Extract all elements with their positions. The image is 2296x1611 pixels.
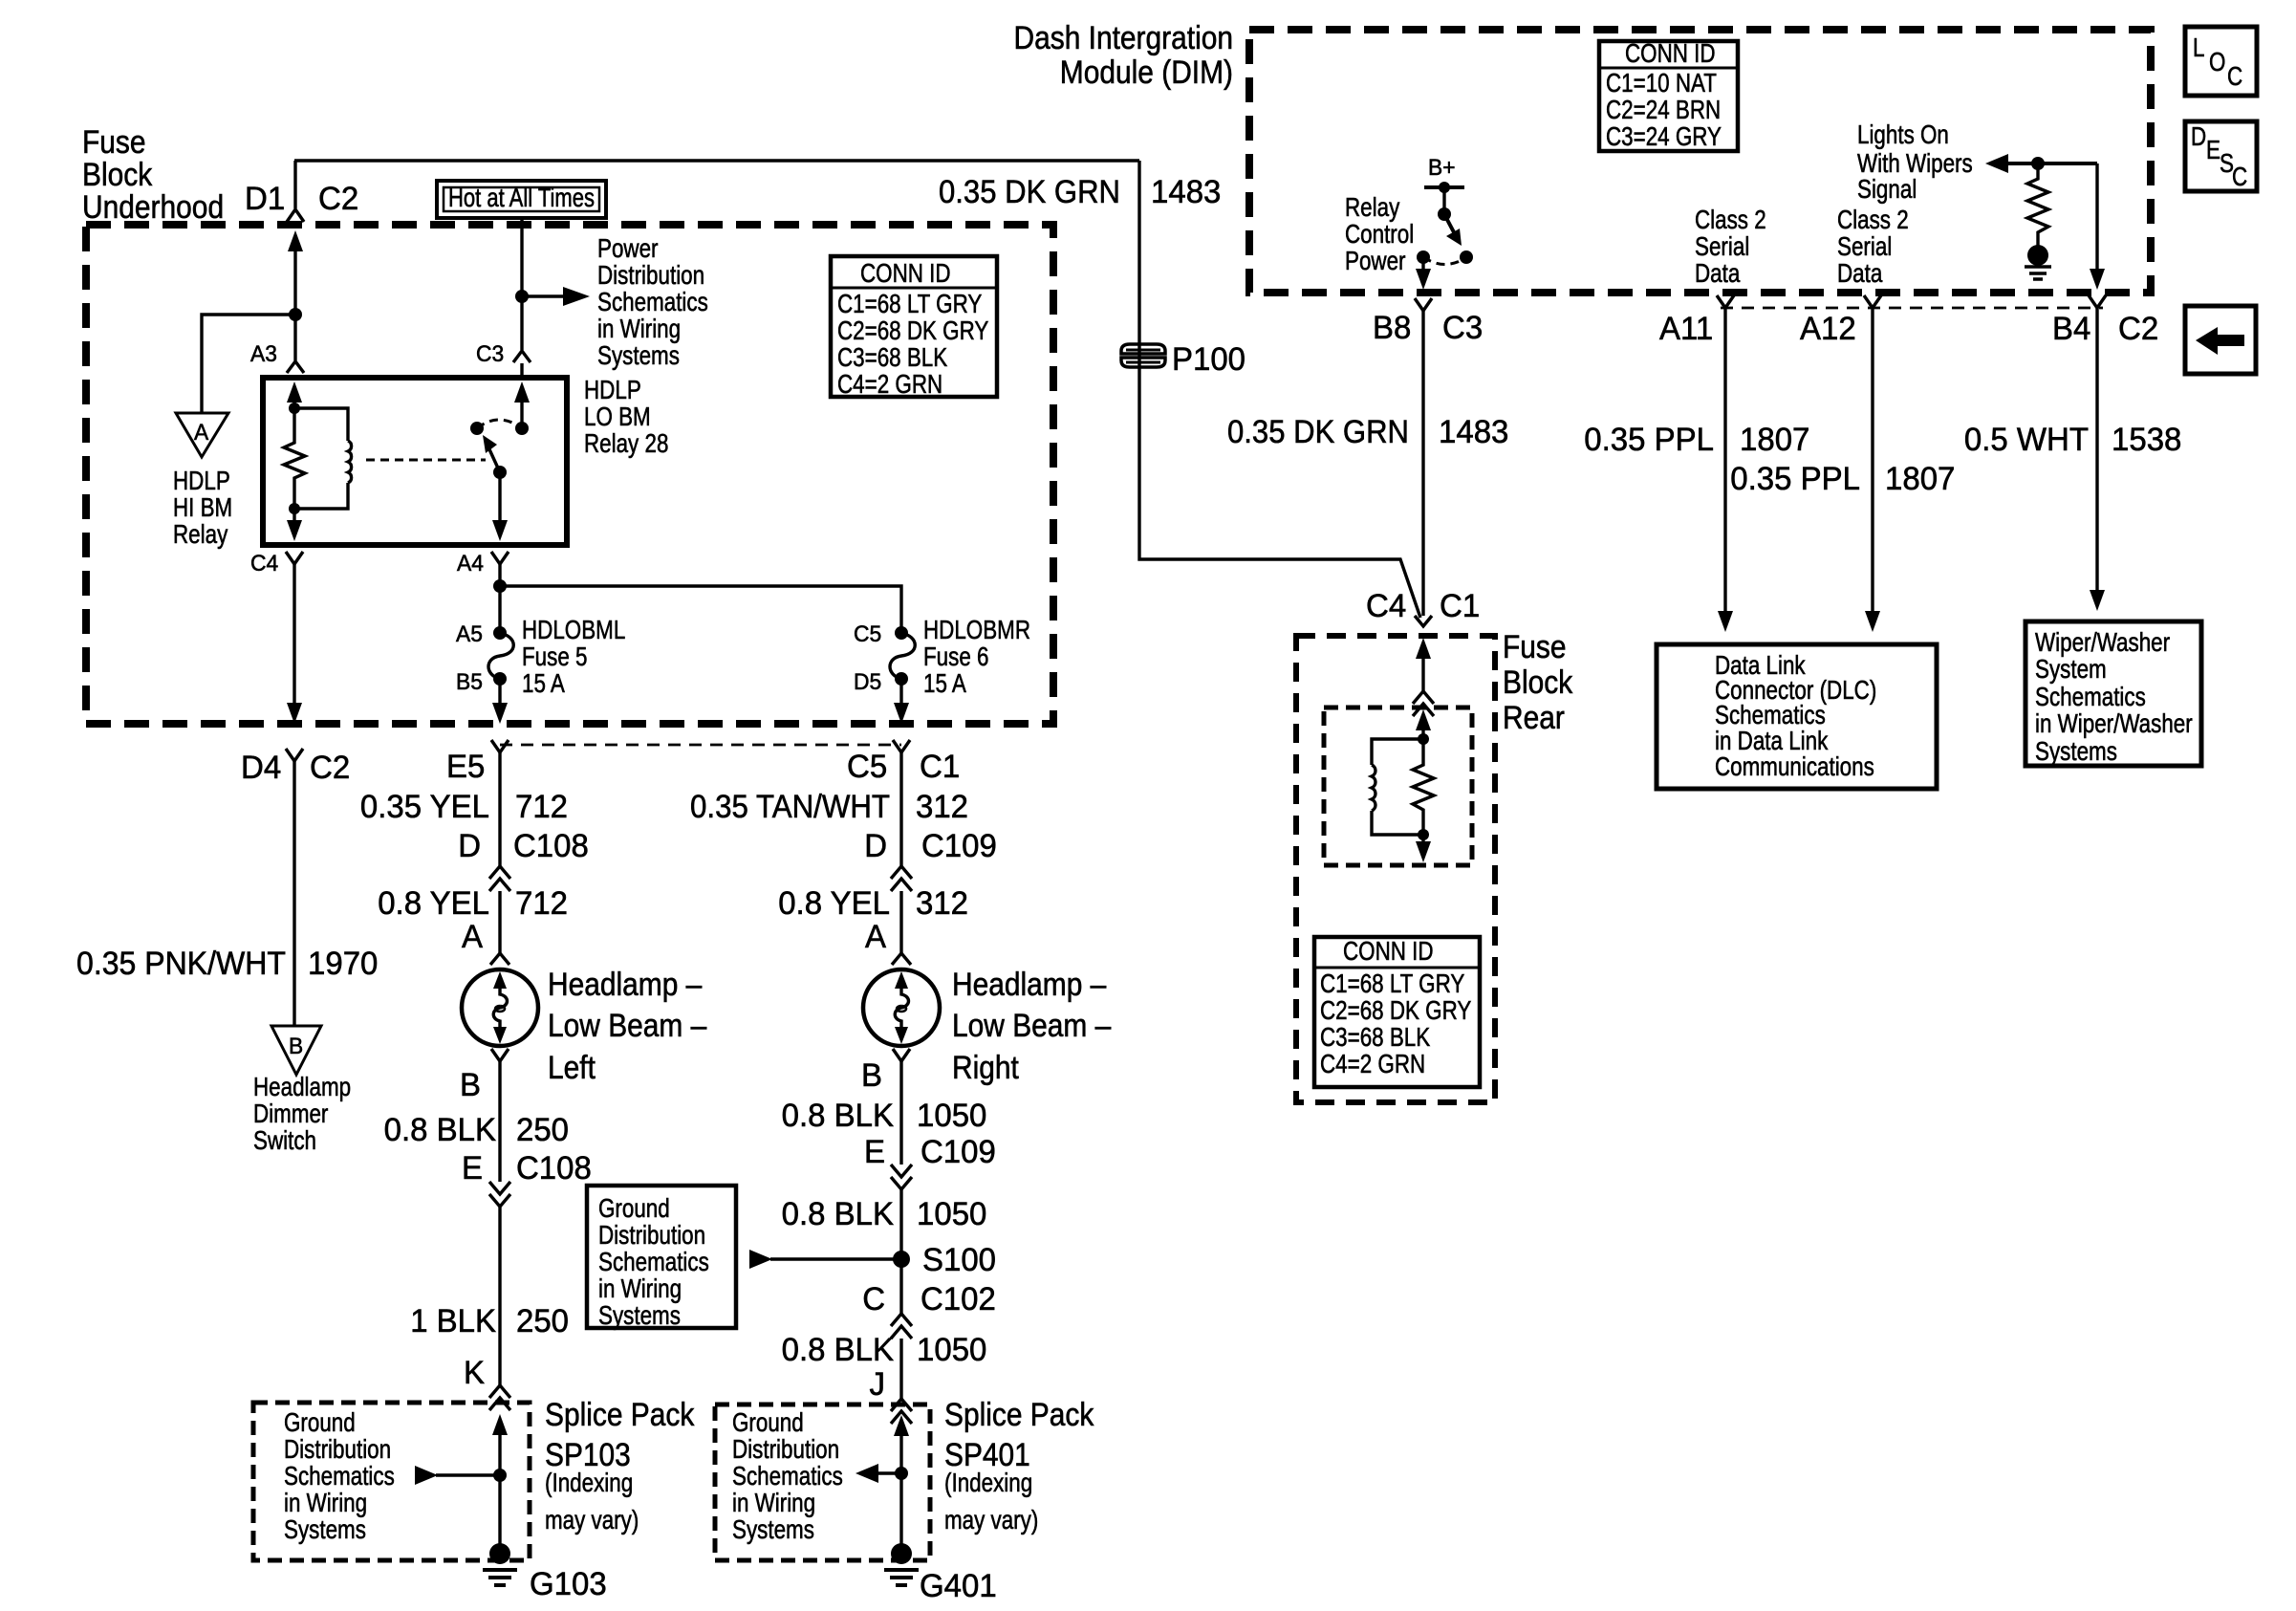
svg-text:712: 712 — [515, 789, 568, 825]
svg-text:A: A — [194, 420, 208, 446]
arrow to Power Distribution Schematics — [522, 287, 590, 306]
connector B (right headlamp) — [861, 1049, 910, 1094]
wire A3 to relay — [293, 315, 296, 360]
relay coil output arrow (C4 side) — [287, 509, 302, 541]
svg-text:C: C — [862, 1281, 885, 1317]
connector A11 — [1659, 295, 1734, 347]
svg-text:E5: E5 — [446, 749, 485, 785]
svg-text:D4: D4 — [241, 750, 281, 786]
data link connector reference box — [1657, 644, 1937, 789]
wire 0.35 DK GRN 1483 (DIM to fuse block rear) — [1227, 311, 1508, 616]
svg-text:Ground: Ground — [732, 1407, 804, 1437]
fuse 6 HDLOBMR — [854, 615, 1030, 698]
svg-text:C1=10 NAT: C1=10 NAT — [1606, 68, 1717, 98]
svg-text:A11: A11 — [1659, 311, 1713, 347]
CONN ID table (fuse block underhood) — [831, 256, 997, 399]
arrow into relay element — [1416, 709, 1431, 739]
svg-text:C102: C102 — [921, 1281, 996, 1317]
svg-text:A: A — [462, 919, 483, 955]
in-line connector D/C109 — [864, 828, 997, 891]
svg-text:1807: 1807 — [1885, 461, 1955, 497]
svg-text:System: System — [2035, 654, 2107, 684]
svg-text:15 A: 15 A — [923, 668, 966, 698]
svg-text:B8: B8 — [1373, 310, 1411, 346]
svg-text:Power: Power — [597, 233, 659, 263]
splice pack SP401 enclosure (dashed) — [715, 1404, 930, 1560]
svg-text:712: 712 — [515, 885, 568, 922]
svg-text:Serial: Serial — [1837, 231, 1892, 261]
wire 1 BLK 250 — [410, 1207, 569, 1385]
svg-text:HDLOBMR: HDLOBMR — [923, 615, 1030, 644]
wire J to G401 — [894, 1415, 909, 1554]
svg-text:Block: Block — [82, 157, 153, 193]
svg-text:Class 2: Class 2 — [1837, 205, 1909, 234]
ground distribution note in SP401 — [732, 1407, 843, 1544]
in-line connector (fuse block rear) — [1413, 691, 1434, 716]
svg-text:1 BLK: 1 BLK — [410, 1303, 496, 1339]
Lights On With Wipers Signal note — [1857, 120, 1973, 204]
Power Distribution Schematics note — [597, 233, 708, 370]
wire to HDLP HI BM Relay reference — [202, 315, 295, 413]
splice pack SP103 labels — [545, 1397, 695, 1535]
relay switch output arrow (A4 side) — [492, 472, 508, 541]
wire D1 stub — [293, 161, 296, 208]
svg-text:D: D — [2191, 121, 2206, 151]
svg-text:in Wiring: in Wiring — [284, 1488, 367, 1517]
svg-text:Wiper/Washer: Wiper/Washer — [2035, 627, 2170, 657]
relay coil top node — [289, 403, 300, 414]
B+ supply — [1424, 155, 1464, 214]
svg-text:Relay: Relay — [1345, 192, 1399, 222]
svg-text:A3: A3 — [250, 341, 277, 367]
svg-text:CONN ID: CONN ID — [860, 258, 951, 288]
relay coil (inductor) — [294, 408, 352, 509]
svg-text:Systems: Systems — [597, 340, 680, 370]
relay element resistor — [1413, 739, 1434, 835]
relay element enclosure (dashed, fuse block rear) — [1324, 708, 1472, 865]
svg-text:Distribution: Distribution — [598, 1220, 705, 1250]
svg-text:Underhood: Underhood — [82, 189, 224, 226]
svg-text:C2: C2 — [2118, 311, 2158, 347]
svg-text:0.8 YEL: 0.8 YEL — [378, 885, 489, 922]
node A3 junction — [289, 308, 302, 321]
LOC legend box — [2185, 27, 2257, 96]
pull resistor (wiper signal) — [2027, 163, 2048, 247]
relay actuation dashed link — [366, 459, 486, 462]
svg-text:Low Beam –: Low Beam – — [952, 1008, 1111, 1044]
relay element top node — [1418, 733, 1429, 745]
svg-text:C4=2 GRN: C4=2 GRN — [837, 369, 942, 399]
arrow to Lights On With Wipers Signal — [1985, 154, 2097, 173]
svg-text:C3: C3 — [476, 341, 504, 367]
arrow out of SP401 wire — [856, 1464, 901, 1483]
connector C1 grouping line (thin dashed) — [500, 744, 901, 747]
arrow at fuse block bottom (fuse 5) — [492, 703, 508, 724]
svg-text:Distribution: Distribution — [732, 1434, 839, 1464]
connector B4/C2 — [2052, 295, 2158, 347]
wire 0.35 TAN/WHT 312 — [690, 752, 968, 866]
svg-text:Dimmer: Dimmer — [253, 1099, 328, 1128]
svg-text:Relay: Relay — [173, 519, 227, 549]
node SP103 tap — [493, 1469, 507, 1482]
svg-text:Schematics: Schematics — [597, 287, 708, 316]
svg-text:Data: Data — [1837, 258, 1883, 288]
Fuse Block Rear title — [1503, 629, 1573, 736]
svg-text:1538: 1538 — [2112, 422, 2181, 458]
svg-text:K: K — [464, 1355, 485, 1391]
relay resistor — [284, 408, 305, 509]
svg-text:Schematics: Schematics — [2035, 682, 2146, 711]
svg-text:A: A — [865, 919, 886, 955]
svg-text:G103: G103 — [530, 1566, 607, 1602]
svg-text:C1: C1 — [1440, 588, 1480, 624]
relay switch dashed throw arc — [477, 420, 522, 428]
svg-text:E: E — [2206, 135, 2220, 164]
wire 0.8 BLK 1050 (upper) — [782, 1061, 987, 1165]
svg-text:Schematics: Schematics — [598, 1247, 709, 1276]
svg-text:250: 250 — [516, 1112, 569, 1148]
svg-text:HDLP: HDLP — [173, 466, 230, 495]
svg-text:C108: C108 — [513, 828, 589, 864]
svg-text:Rear: Rear — [1503, 700, 1565, 736]
svg-text:C2=68 DK GRY: C2=68 DK GRY — [837, 316, 989, 345]
connector A4 (relay output) — [457, 551, 509, 577]
svg-text:0.5 WHT: 0.5 WHT — [1964, 422, 2089, 458]
arrow from ground distribution box to S100 — [749, 1250, 901, 1269]
svg-text:Hot at All Times: Hot at All Times — [448, 183, 595, 212]
svg-text:C4: C4 — [250, 551, 278, 577]
svg-text:Left: Left — [548, 1050, 596, 1086]
svg-text:G401: G401 — [920, 1568, 997, 1604]
in-line connector D/C108 — [458, 828, 589, 891]
fuse block underhood enclosure (dashed) — [86, 225, 1053, 724]
relay switch pin arrow (C3 side) — [514, 381, 530, 428]
svg-text:1050: 1050 — [917, 1196, 986, 1232]
svg-text:Dash Intergration: Dash Intergration — [1014, 20, 1234, 56]
arrow out of relay element — [1416, 835, 1431, 862]
svg-text:Systems: Systems — [732, 1514, 814, 1544]
Class 2 Serial Data note (A11) — [1695, 205, 1766, 288]
relay switch blade — [483, 435, 500, 472]
svg-text:D: D — [458, 828, 481, 864]
wire C3 into relay — [520, 363, 523, 378]
svg-text:C2=68 DK GRY: C2=68 DK GRY — [1320, 995, 1472, 1025]
svg-text:Systems: Systems — [2035, 736, 2117, 766]
svg-text:0.8 BLK: 0.8 BLK — [782, 1196, 895, 1232]
ground G401 — [884, 1543, 997, 1604]
connector J — [870, 1366, 913, 1424]
svg-text:B: B — [861, 1057, 882, 1094]
svg-text:CONN ID: CONN ID — [1343, 936, 1434, 966]
svg-text:1050: 1050 — [917, 1098, 986, 1134]
svg-text:C1=68 LT GRY: C1=68 LT GRY — [1320, 969, 1465, 998]
svg-text:Block: Block — [1503, 664, 1573, 701]
grommet P100 — [1121, 341, 1245, 378]
svg-text:may vary): may vary) — [545, 1505, 639, 1535]
svg-text:0.8 BLK: 0.8 BLK — [384, 1112, 497, 1148]
svg-text:in Wiring: in Wiring — [732, 1488, 815, 1517]
in-line connector E/C109 — [864, 1134, 996, 1189]
triangle reference A (HDLP HI BM Relay) — [173, 413, 232, 549]
relay coil bottom node — [289, 503, 300, 514]
wire K to G103 — [492, 1414, 508, 1554]
relay control switch in DIM — [1345, 192, 1473, 275]
svg-text:C4=2 GRN: C4=2 GRN — [1320, 1049, 1425, 1078]
in-line connector E/C108 — [462, 1150, 592, 1207]
svg-text:312: 312 — [916, 789, 968, 825]
connector C2 grouping line (thin dashed, DIM) — [1721, 307, 2103, 310]
relay element coil — [1372, 739, 1423, 835]
wire 0.35 DK GRN 1483 (top, via P100) — [939, 161, 1420, 618]
svg-text:in Wiring: in Wiring — [597, 314, 681, 343]
node SP401 tap — [895, 1467, 908, 1480]
svg-text:B+: B+ — [1428, 155, 1456, 181]
svg-text:D: D — [864, 828, 887, 864]
svg-text:Serial: Serial — [1695, 231, 1749, 261]
svg-text:(Indexing: (Indexing — [545, 1468, 633, 1497]
connector C5/C1 — [847, 740, 960, 785]
svg-text:C1=68 LT GRY: C1=68 LT GRY — [837, 289, 983, 318]
svg-text:C3=24 GRY: C3=24 GRY — [1606, 121, 1722, 151]
connector C3 — [476, 341, 531, 367]
node power distribution tap — [515, 290, 529, 303]
wire 0.35 PPL 1807 (A11) — [1584, 308, 1809, 632]
svg-text:C109: C109 — [921, 1134, 996, 1170]
Dash Integration Module enclosure (dashed) — [1249, 30, 2151, 293]
svg-text:S100: S100 — [922, 1242, 996, 1278]
arrow into fuse block at D1 — [288, 230, 303, 315]
svg-text:D1: D1 — [245, 181, 285, 217]
svg-text:P100: P100 — [1172, 341, 1245, 378]
fuse 5 HDLOBML — [456, 615, 625, 698]
svg-text:Low Beam –: Low Beam – — [548, 1008, 706, 1044]
headlamp low beam left bulb — [462, 967, 706, 1086]
CONN ID table (DIM) — [1599, 38, 1738, 151]
svg-text:Ground: Ground — [284, 1407, 356, 1437]
svg-text:250: 250 — [516, 1303, 569, 1339]
headlamp low beam right bulb — [863, 967, 1111, 1086]
arrow at fuse block bottom (C4) — [287, 703, 302, 724]
svg-text:C108: C108 — [516, 1150, 592, 1186]
svg-text:B5: B5 — [456, 669, 483, 695]
svg-text:1807: 1807 — [1740, 422, 1809, 458]
wire 0.35 YEL 712 — [360, 752, 568, 866]
svg-text:CONN ID: CONN ID — [1625, 38, 1716, 68]
svg-text:0.35 PNK/WHT: 0.35 PNK/WHT — [76, 946, 286, 982]
connector A (left headlamp) — [462, 919, 509, 965]
svg-text:C3=68 BLK: C3=68 BLK — [1320, 1022, 1430, 1052]
svg-text:in Wiring: in Wiring — [598, 1274, 682, 1303]
svg-text:C5: C5 — [847, 749, 887, 785]
svg-text:Communications: Communications — [1715, 751, 1874, 781]
svg-text:Power: Power — [1345, 246, 1406, 275]
wire C4 to fuse block edge — [292, 564, 295, 706]
wire 0.8 YEL 712 — [378, 885, 568, 953]
svg-text:0.8 YEL: 0.8 YEL — [778, 885, 890, 922]
splice pack SP401 labels — [944, 1397, 1094, 1535]
svg-text:0.35 PPL: 0.35 PPL — [1730, 461, 1860, 497]
svg-text:HDLOBML: HDLOBML — [522, 615, 625, 644]
svg-text:Distribution: Distribution — [597, 260, 704, 290]
wire 0.35 PPL 1807 (A12) — [1730, 308, 1955, 632]
wire A4 down — [498, 564, 501, 633]
wiper/washer reference box — [2025, 621, 2201, 766]
svg-text:1970: 1970 — [308, 946, 378, 982]
svg-text:C3=68 BLK: C3=68 BLK — [837, 342, 947, 372]
connector A3 — [250, 341, 304, 373]
svg-text:Lights On: Lights On — [1857, 120, 1949, 149]
svg-text:Distribution: Distribution — [284, 1434, 391, 1464]
svg-text:Control: Control — [1345, 219, 1414, 249]
svg-text:0.35 DK GRN: 0.35 DK GRN — [1227, 414, 1409, 450]
svg-text:0.35 YEL: 0.35 YEL — [360, 789, 489, 825]
svg-text:Headlamp: Headlamp — [253, 1072, 351, 1101]
svg-text:C4: C4 — [1366, 588, 1406, 624]
svg-text:0.35 TAN/WHT: 0.35 TAN/WHT — [690, 789, 890, 825]
svg-text:may vary): may vary) — [944, 1505, 1038, 1535]
Fuse Block Underhood title — [82, 124, 224, 226]
svg-text:Headlamp –: Headlamp – — [952, 967, 1106, 1003]
connector E5 — [446, 740, 509, 785]
svg-text:C1: C1 — [920, 749, 960, 785]
connector B8/C3 — [1373, 298, 1483, 346]
svg-text:Signal: Signal — [1857, 174, 1917, 204]
svg-text:Systems: Systems — [598, 1300, 681, 1330]
svg-text:C5: C5 — [854, 621, 881, 647]
svg-text:1483: 1483 — [1151, 174, 1221, 210]
svg-text:C: C — [2232, 162, 2247, 191]
svg-text:C3: C3 — [1442, 310, 1483, 346]
svg-text:Data: Data — [1695, 258, 1741, 288]
ground G103 — [483, 1543, 607, 1602]
svg-text:J: J — [870, 1366, 886, 1403]
svg-text:Fuse: Fuse — [82, 124, 146, 161]
svg-text:C: C — [2227, 61, 2242, 91]
arrow into fuse block rear — [1416, 638, 1431, 691]
ground distribution reference box (middle) — [587, 1186, 736, 1330]
arrow relay control power to DIM edge — [1416, 257, 1431, 290]
svg-text:Switch: Switch — [253, 1125, 316, 1155]
wire from D1/C2 to DIM (net 1483) — [294, 159, 1139, 162]
wire 0.8 YEL 312 — [778, 885, 968, 953]
wire wiper signal to B4 — [2090, 163, 2105, 290]
connector A (right headlamp) — [865, 919, 911, 965]
wire A4 branch to fuse 6 — [500, 586, 901, 631]
svg-text:0.35 PPL: 0.35 PPL — [1584, 422, 1714, 458]
relay switch NO contact — [470, 422, 484, 435]
svg-text:Module (DIM): Module (DIM) — [1060, 54, 1233, 91]
svg-text:E: E — [864, 1134, 885, 1170]
svg-text:B: B — [460, 1067, 481, 1103]
svg-text:Fuse 5: Fuse 5 — [522, 642, 588, 671]
svg-text:(Indexing: (Indexing — [944, 1468, 1032, 1497]
svg-text:Systems: Systems — [284, 1514, 366, 1544]
svg-text:Right: Right — [952, 1050, 1019, 1086]
wire fuse 5 to fuse block edge — [498, 679, 501, 706]
wire 0.5 WHT 1538 (B4) — [1964, 308, 2182, 611]
wire 0.35 PNK/WHT 1970 — [76, 761, 378, 1026]
fuse block rear enclosure (dashed) — [1296, 636, 1495, 1102]
svg-text:Fuse 6: Fuse 6 — [923, 642, 989, 671]
wire 0.8 BLK 250 — [384, 1061, 569, 1182]
svg-text:Splice Pack: Splice Pack — [545, 1397, 695, 1433]
svg-text:Class 2: Class 2 — [1695, 205, 1766, 234]
svg-text:LO BM: LO BM — [584, 402, 651, 431]
relay element bottom node — [1418, 829, 1429, 840]
svg-text:Schematics: Schematics — [284, 1461, 395, 1491]
svg-text:L: L — [2193, 33, 2205, 62]
in-line connector C/C102 — [862, 1281, 996, 1339]
wire 0.8 BLK 1050 (lower) — [782, 1332, 987, 1399]
svg-text:0.8 BLK: 0.8 BLK — [782, 1098, 895, 1134]
svg-text:E: E — [462, 1150, 483, 1186]
svg-text:312: 312 — [916, 885, 968, 922]
arrow at fuse block bottom (fuse 6) — [894, 703, 909, 724]
svg-text:C2: C2 — [310, 750, 350, 786]
CONN ID table (fuse block rear) — [1314, 936, 1480, 1087]
splice pack SP103 enclosure (dashed) — [253, 1403, 530, 1560]
svg-text:1483: 1483 — [1439, 414, 1508, 450]
svg-text:Splice Pack: Splice Pack — [944, 1397, 1094, 1433]
svg-text:C2=24 BRN: C2=24 BRN — [1606, 95, 1721, 124]
HDLP LO BM Relay 28 box — [263, 375, 668, 545]
connector D4/C2 — [241, 749, 350, 786]
svg-text:A4: A4 — [457, 551, 484, 577]
svg-text:0.35 DK GRN: 0.35 DK GRN — [939, 174, 1120, 210]
svg-text:Ground: Ground — [598, 1193, 670, 1223]
ground inside DIM — [2025, 245, 2051, 279]
Hot at All Times callout box — [437, 181, 606, 218]
svg-text:15 A: 15 A — [522, 668, 565, 698]
connector C4/C1 (fuse block rear) — [1366, 588, 1480, 626]
svg-text:A5: A5 — [456, 621, 483, 647]
connector C4 (relay output) — [250, 551, 303, 577]
svg-text:O: O — [2209, 47, 2225, 76]
svg-text:A12: A12 — [1800, 311, 1856, 347]
Dash Integration Module title — [1014, 20, 1234, 91]
arrow into SP103 wire — [415, 1466, 500, 1485]
connector D1/C2 — [245, 181, 358, 222]
node wiper signal resistor tap — [2031, 157, 2045, 170]
svg-text:in Wiper/Washer: in Wiper/Washer — [2035, 708, 2193, 738]
svg-text:HI BM: HI BM — [173, 492, 232, 522]
connector K — [464, 1355, 510, 1410]
wire fuse 6 to fuse block edge — [899, 679, 902, 706]
triangle reference B (Headlamp Dimmer Switch) — [253, 1026, 351, 1155]
wire from Hot at All Times to relay C3 — [520, 218, 523, 350]
svg-text:0.8 BLK: 0.8 BLK — [782, 1332, 895, 1368]
svg-text:HDLP: HDLP — [584, 375, 641, 404]
svg-text:Schematics: Schematics — [732, 1461, 843, 1491]
relay switch common contact — [515, 422, 529, 435]
svg-text:Fuse: Fuse — [1503, 629, 1567, 665]
splice S100 — [893, 1242, 996, 1278]
connector A12 — [1800, 295, 1881, 347]
svg-text:1050: 1050 — [917, 1332, 986, 1368]
svg-text:Headlamp –: Headlamp – — [548, 967, 702, 1003]
relay coil pin arrow (A3 side) — [287, 381, 302, 408]
wire 0.8 BLK 1050 (to S100) — [782, 1189, 987, 1314]
svg-text:Relay 28: Relay 28 — [584, 428, 668, 458]
svg-text:D5: D5 — [854, 669, 881, 695]
back-arrow legend box — [2185, 306, 2256, 374]
Class 2 Serial Data note (A12) — [1837, 205, 1909, 288]
svg-text:B4: B4 — [2052, 311, 2090, 347]
svg-text:C2: C2 — [318, 181, 358, 217]
svg-text:C109: C109 — [921, 828, 997, 864]
ground distribution note in SP103 — [284, 1407, 395, 1544]
node A4 branch — [493, 579, 507, 593]
